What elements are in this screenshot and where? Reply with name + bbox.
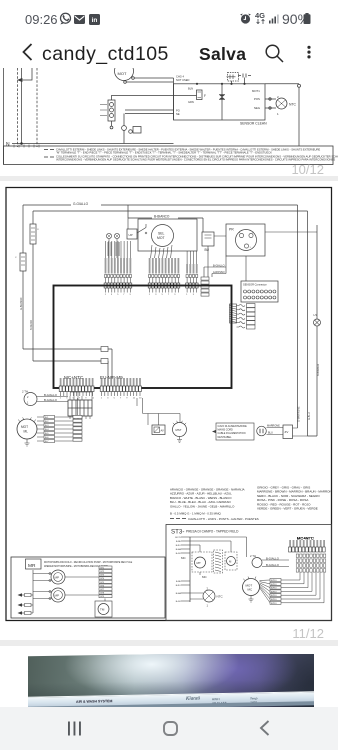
svg-text:MT: MT [197,561,201,565]
svg-text:MC: MC [181,556,186,560]
module SENSOR CLEAN box [174,84,266,120]
svg-text:G-GIALLO: G-GIALLO [73,202,89,206]
svg-text:ML: ML [24,430,29,434]
svg-text:CAVALLOTTI - LINKS - PONTS - H: CAVALLOTTI - LINKS - PONTS - HALTER - PU… [188,517,259,521]
svg-text:C: C [15,257,17,259]
MR section box [11,557,165,618]
svg-text:11: 11 [133,398,136,400]
svg-text:B7RO: B7RO [271,588,277,590]
label MR [26,559,42,569]
svg-text:1: 1 [186,294,188,296]
motor SEL MOT [152,225,174,247]
svg-text:MR: MR [28,563,36,569]
thermal pump TM [95,601,112,617]
wire top to NTC terminal [265,83,299,85]
photo background gradient [22,652,321,717]
svg-text:3: 3 [193,294,195,296]
node J2 [221,83,223,85]
svg-text:GRN: GRN [188,100,194,104]
connector MC+NTC ST3 [11,536,326,619]
svg-text:NETZKABEL: NETZKABEL [218,436,233,439]
colour code legend [170,486,332,522]
wire ST3 bus [175,537,190,603]
svg-text:F: F [38,229,40,231]
connector strip CN1 [104,241,132,296]
svg-text:1: 1 [60,398,62,400]
svg-text:B-RO: B-RO [176,545,181,547]
connector MC+NTC ST3 [11,536,326,619]
search icon [263,43,285,65]
svg-text:MP: MP [55,576,60,580]
svg-text:BLU: BLU [268,432,273,435]
svg-text:9: 9 [85,398,87,400]
lamp L1 [106,233,111,238]
svg-text:N: N [6,142,10,148]
connector MC+NTC ST3 [11,536,326,619]
4G icon [255,11,265,20]
wire PR to board [204,256,246,281]
svg-text:MOTOPOMPA RICICOLO - RECIRCULA: MOTOPOMPA RICICOLO - RECIRCULATION PUMP … [44,561,133,564]
valve AV [152,425,165,435]
NTC probe [276,98,287,109]
svg-text:A-ROSSO: A-ROSSO [213,271,225,274]
connector grid MC [68,392,92,419]
svg-text:1: 1 [101,398,103,400]
separator band [0,176,338,182]
thermistor NTC ST3 [190,587,223,608]
svg-text:B-BIANCO: B-BIANCO [317,364,320,376]
svg-text:in: in [91,17,97,24]
panel lower shade [24,701,320,711]
svg-text:NE: NE [176,112,180,116]
svg-text:SENSOR Connector: SENSOR Connector [243,283,267,287]
wire bus vertical [173,78,175,120]
pump MP2 [51,588,65,602]
motor M01 (cut off) [115,62,134,81]
svg-text:1: 1 [207,604,209,608]
svg-text:B7RO: B7RO [271,584,277,586]
wire G-GIALLO top bus [23,201,298,207]
suppressor filter F1 [30,224,40,244]
connector strip CN6 [100,378,142,400]
svg-text:F: F [204,94,206,98]
svg-text:1: 1 [277,112,279,116]
suppressor filter FA [108,100,115,121]
label MC upper [181,556,186,560]
svg-text:BLN: BLN [188,87,193,91]
email icon [74,15,85,24]
thermo contact row 4 [237,316,256,320]
linkedin icon [89,14,100,25]
connector MC+NTC ST3 [11,536,326,619]
svg-text:MP: MP [55,594,60,598]
interlock contact [122,126,127,131]
node J1 [196,83,198,85]
svg-text:B7RO: B7RO [271,591,277,593]
svg-text:7: 7 [123,294,125,296]
pressure switch PR box [226,224,265,256]
wire B-BIANCO branch [128,205,203,232]
wire left drop 1 [23,205,112,378]
ground tags MR [18,593,34,615]
connector MC+NTC ST3 [11,536,326,619]
svg-text:PO: PO [176,109,180,113]
svg-text:9: 9 [130,294,132,296]
lamp L2 [114,233,119,238]
thermo contact row 1 [237,304,256,308]
ST3 section box [166,525,332,621]
wire riser LS [308,225,321,436]
svg-text:MC: MC [248,588,253,592]
connector PCB edge hatched [230,304,237,323]
svg-text:SENSOR CLEAN: SENSOR CLEAN [240,122,267,126]
wire earth dashed [36,68,38,147]
svg-text:"M" TERMINALE "T" - END PIECE: "M" TERMINALE "T" - END PIECE "T" - PIEC… [56,151,272,155]
label G-BIANCO left riser [20,298,23,310]
svg-text:G-BIANCO: G-BIANCO [20,298,23,310]
page 10 left border [3,68,5,164]
home icon [163,721,178,736]
wire filter top [112,96,197,101]
svg-text:B-GR: B-GR [176,601,182,603]
capacitor filter C4 [15,253,26,271]
svg-text:5: 5 [73,398,75,400]
svg-text:UP: UP [129,233,133,237]
connector MC+NTC ST3 [289,536,326,573]
svg-text:B-GIALLO: B-GIALLO [213,264,225,267]
switch UP [127,218,147,239]
back icon [259,720,270,736]
alarm icon [240,13,251,24]
svg-text:MST: MST [176,428,182,432]
connector strip CN3 [186,251,198,296]
svg-text:B7RO: B7RO [271,595,277,597]
svg-text:B7RO: B7RO [271,603,277,605]
connector motor CN7 [73,398,82,441]
svg-text:NTC: NTC [289,103,297,107]
mains plug P1 [257,424,283,436]
svg-text:7: 7 [168,294,170,296]
3-dot menu [306,45,312,63]
motor M [190,541,237,570]
svg-text:PRESA DI CAMPO - TAPPED FIELD: PRESA DI CAMPO - TAPPED FIELD [186,530,239,534]
capacitor C2 [238,74,251,78]
svg-text:1: 1 [149,294,151,296]
connector MC+NTC ST3 [11,536,326,619]
svg-text:POS: POS [254,97,260,101]
terminal block ZV [283,425,308,439]
label mains cable [212,423,254,440]
selector assembly box [138,219,197,251]
svg-text:5: 5 [114,398,116,400]
label MR description [44,561,133,568]
svg-text:B-GIALLO: B-GIALLO [266,563,280,567]
capacitor C1 dashed [228,73,239,82]
svg-text:3: 3 [155,294,157,296]
svg-text:B-MA: B-MA [176,548,182,551]
thermo contact row 2 [237,308,256,312]
svg-text:M: M [229,560,232,564]
wire earth drop [298,87,300,146]
svg-text:ST3-: ST3- [171,529,184,536]
thermostat 2TH ST3 [250,554,289,568]
svg-text:MC: MC [202,575,207,579]
wire M01 to board [127,78,174,82]
machine top panel band [24,691,320,708]
whatsapp icon [59,12,72,25]
wire MR bus [33,570,51,613]
signal bars [269,13,280,24]
wire G-BLU second bus [33,210,308,212]
svg-text:NTC: NTC [217,595,224,599]
svg-text:3: 3 [111,294,113,296]
svg-text:2 TH: 2 TH [250,554,256,558]
connector SENSOR [241,281,278,302]
relay BU [202,232,214,277]
svg-text:9: 9 [126,398,128,400]
inline terminal T2 [101,359,108,364]
wire left drop 2 [33,211,108,378]
fuse F [197,90,203,100]
svg-text:B-MA: B-MA [176,592,182,595]
svg-text:13: 13 [139,398,142,400]
wire riser G-MARRONE [298,205,301,428]
wire phase dashed L [17,68,19,147]
connector strip MR [65,566,112,601]
terminal E [298,84,301,87]
lamp LS [314,313,321,326]
svg-text:NEG: NEG [254,106,260,110]
svg-text:MARRONE: MARRONE [267,424,280,427]
label MC lower [190,537,247,579]
connector MC+NTC ST3 [11,536,326,619]
wire riser G-BLU [308,211,311,436]
connector strip CN5 [59,378,95,400]
thermo contact row 3 [237,312,256,316]
svg-text:B7RO: B7RO [271,599,277,601]
wire lamp drops [107,239,120,258]
svg-text:3: 3 [66,398,68,400]
NTC probe terminals [265,99,276,108]
svg-text:2 TH: 2 TH [22,390,28,394]
wire EU to AV [137,398,180,425]
svg-text:MOT1: MOT1 [175,537,181,539]
svg-text:PR: PR [229,228,234,232]
svg-text:5: 5 [162,294,164,296]
inline terminal T1 [101,347,108,352]
svg-text:B-BIANCO: B-BIANCO [154,215,170,219]
battery icon [303,13,311,24]
svg-text:AV: AV [161,429,165,433]
wire link arrow [19,68,33,80]
svg-text:MC+NTC: MC+NTC [297,536,314,541]
wire fan selector to connector [151,245,172,258]
connector MC+NTC ST3 [11,536,326,619]
svg-text:B-NE: B-NE [176,541,181,543]
svg-text:B-NE: B-NE [176,581,181,583]
recents icon [67,721,82,736]
svg-text:B7RO: B7RO [271,580,277,582]
thermo contact row 6 [237,325,256,329]
svg-text:NOT USED: NOT USED [176,78,189,82]
svg-text:G-MARRONE: G-MARRONE [298,406,301,422]
svg-text:B-GIALLO: B-GIALLO [44,393,58,397]
node N [12,143,174,145]
pump MP1 [51,570,65,584]
svg-text:7: 7 [120,398,122,400]
PCB EU-MP-M9 [54,286,232,389]
svg-text:WIEDER MOTORPUMPE - MOTOBOMBA: WIEDER MOTORPUMPE - MOTOBOMBA RECICULACI… [44,565,108,568]
connector strip CN2 [148,258,180,296]
notes box [4,146,338,165]
svg-text:LS: LS [314,313,318,317]
wire motor harness [37,415,73,443]
svg-text:GIALLO - YELLOW - JAUNE - GELB: GIALLO - YELLOW - JAUNE - GELB - AMARILL… [170,504,235,508]
wire harness MOT MC [260,573,325,605]
terminal ticks [14,145,39,148]
svg-text:MOT: MOT [157,236,165,240]
svg-text:B-GIALLO: B-GIALLO [266,556,280,560]
svg-text:MOT1: MOT1 [252,89,260,93]
svg-text:B - 0.5 MMQ G - 1 MMQ: B - 0.5 MMQ G - 1 MMQ M - 0.35 MMQ [170,512,222,516]
motor tacho MT [190,545,212,572]
field winding FW [214,550,223,573]
motor MOT ML [17,417,37,446]
wire BU to PR [214,232,317,236]
pressure switch PR contacts [236,230,257,251]
svg-text:1: 1 [105,294,107,296]
svg-text:9: 9 [174,294,176,296]
svg-text:B-RO: B-RO [176,585,181,587]
svg-text:1: 1 [250,247,252,249]
svg-text:2: 2 [27,396,29,399]
varistor VDR [221,84,223,120]
page 11 sheet border [6,188,332,621]
svg-text:3: 3 [107,398,109,400]
svg-text:ZV: ZV [285,430,289,434]
connector MC+NTC ST3 [11,536,326,619]
motor MOT MC ST3 [243,577,260,602]
svg-text:B-NERO: B-NERO [30,320,33,330]
thermostat 2TH [22,390,68,406]
svg-text:5: 5 [117,294,119,296]
label B-NERO left riser [30,320,33,330]
svg-text:B-GR: B-GR [176,553,182,555]
svg-text:B-GIALLO: B-GIALLO [44,398,58,402]
svg-text:CABLE D'ALIMENTATION: CABLE D'ALIMENTATION [218,432,246,435]
back chevron [22,43,33,61]
svg-text:MOT: MOT [118,71,127,76]
svg-text:G-BLU: G-BLU [308,412,311,420]
wire PO NE [125,110,174,114]
thermo contact row 5 [237,321,256,325]
svg-text:MAINS CORD: MAINS CORD [218,429,234,432]
svg-text:TM: TM [100,608,105,612]
svg-text:MOT: MOT [21,425,28,429]
svg-text:CAVO DI ALIMENTAZIONE: CAVO DI ALIMENTAZIONE [218,425,248,428]
wire neutral [21,68,23,144]
svg-text:1: 1 [27,402,29,405]
connector column CN4 [201,277,209,296]
motor MST [173,421,187,443]
svg-text:CHG 4: CHG 4 [176,75,184,79]
svg-text:7: 7 [79,398,81,400]
page number 10/12 [0,162,324,177]
svg-text:BU: BU [205,248,210,252]
svg-text:VERDE - GREEN - VERT - GRUEN -: VERDE - GREEN - VERT - GRUEN - VERDE [257,507,318,511]
page number 11/12 [0,626,324,641]
